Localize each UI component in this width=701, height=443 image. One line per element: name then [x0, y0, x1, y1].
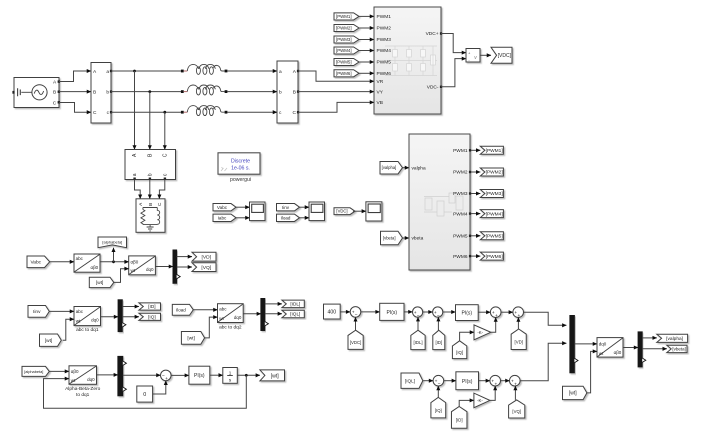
wire abc-to-dq2 to demux2b	[243, 313, 261, 315]
from tag [wt] (row1)	[89, 277, 114, 287]
wire [VDC] to sum1	[355, 317, 357, 330]
wire measurement3 c to load C	[159, 180, 164, 199]
wire from [PWM3] to converter PWM3	[359, 39, 374, 41]
wire wt feedback to Alpha-Beta-Zero wt port	[44, 375, 247, 408]
wire [alphabeta] to Alpha-Beta-Zero block	[50, 370, 70, 372]
wire branch c down to measurement3	[164, 112, 166, 149]
goto tag [ID]	[139, 303, 161, 310]
svg-text:Discrete: Discrete	[231, 158, 250, 164]
from tag Iinv (scope feed)	[277, 204, 300, 211]
svg-text:abc: abc	[76, 256, 84, 261]
scope 3 (VDC)	[366, 202, 382, 221]
svg-text:B: B	[293, 89, 296, 95]
goto tag [valpha]	[657, 334, 688, 342]
sum block 4	[490, 307, 501, 319]
node alphabeta branch	[112, 260, 115, 263]
gain block -K- 2	[474, 393, 490, 408]
wire Iabc to scope1	[236, 217, 250, 219]
from tag [VQ] (up)	[509, 400, 525, 418]
three-phase V-I measurement block 2	[277, 61, 299, 123]
svg-text:b: b	[106, 89, 109, 95]
svg-text:[PWM4]: [PWM4]	[486, 211, 503, 217]
wire PI(s) to integrator	[210, 374, 223, 376]
svg-text:[wt]: [wt]	[187, 336, 194, 342]
from tag [IQL]	[401, 373, 423, 388]
from tag [IQ] (up, top row)	[452, 341, 466, 359]
wire Iload to abc-to-dq2	[193, 309, 218, 311]
svg-text:[PWM3]: [PWM3]	[336, 37, 352, 42]
svg-text:[PWM3]: [PWM3]	[486, 191, 503, 197]
svg-text:abc: abc	[219, 306, 227, 311]
svg-text:PI(s): PI(s)	[462, 311, 473, 317]
from tag Vabc	[27, 256, 50, 268]
svg-text:[VDC]: [VDC]	[498, 53, 512, 59]
svg-text:wt: wt	[71, 378, 76, 383]
svg-text:[vbeta]: [vbeta]	[672, 347, 686, 352]
svg-text:[IQL]: [IQL]	[290, 312, 300, 317]
wire VDC+ to voltage measurement	[441, 34, 466, 53]
svg-text:b: b	[279, 89, 282, 95]
wire PWM generator PWM4 to goto	[471, 213, 480, 215]
svg-text:VY: VY	[377, 89, 384, 95]
wire demux2a to goto [IQ]	[122, 316, 139, 318]
svg-text:wt: wt	[131, 268, 136, 273]
svg-text:-K-: -K-	[477, 398, 483, 403]
from tag [PWM2] input	[334, 24, 359, 31]
svg-text:Iload: Iload	[281, 215, 291, 220]
wire constant 0 to PLL sum	[153, 381, 166, 394]
svg-text:[IQL]: [IQL]	[405, 378, 415, 383]
wire demux2b to goto [IQL]	[265, 313, 282, 315]
wire demux2a to goto [ID]	[122, 306, 139, 308]
wire [wt] to abc-to-dq2 wt port	[204, 317, 217, 338]
sum block 9	[510, 375, 521, 387]
transformation block abc to dq2	[218, 304, 244, 331]
wire [VDC] to scope3	[353, 210, 366, 212]
transformation block abc to alpha-beta-zero	[74, 254, 100, 272]
wire source C to measurement1 C	[59, 103, 91, 113]
transformation block abc to dq1	[74, 307, 101, 334]
svg-text:PI(s): PI(s)	[387, 310, 398, 316]
svg-text:VDC+: VDC+	[426, 31, 439, 37]
wire demux4 to goto [valpha]	[642, 337, 657, 339]
from tag [PWM4] input	[334, 47, 359, 54]
svg-text:[ID]: [ID]	[456, 418, 463, 423]
svg-text:wt: wt	[219, 316, 224, 321]
svg-text:B: B	[53, 90, 56, 96]
demux 4	[638, 332, 646, 367]
svg-text:C: C	[163, 153, 169, 157]
from tag [IQ] (up, bottom row)	[431, 397, 446, 418]
demux 3	[118, 356, 127, 395]
wire measurement2 A to converter VR	[298, 71, 374, 81]
svg-text:αβ0: αβ0	[614, 350, 622, 355]
wire sum3 to PI2	[443, 311, 456, 313]
from tag [PWM6] input	[334, 70, 359, 77]
wire gain1 to sum4	[491, 318, 496, 333]
wire PLL sum to PI(s)	[171, 374, 189, 376]
svg-text:[vbeta]: [vbeta]	[383, 236, 396, 241]
wire source A to measurement1 A	[59, 71, 91, 82]
sum block 7	[433, 375, 444, 387]
sum block 8	[490, 375, 501, 387]
wire Vabc to abc-alphabeta block	[50, 261, 74, 263]
from tag [valpha]	[380, 161, 403, 174]
svg-text:[IQ]: [IQ]	[456, 350, 463, 355]
goto tag [VDC]	[491, 47, 512, 63]
wire dq0-alphabeta to demux4	[623, 347, 638, 349]
svg-text:[PWM5]: [PWM5]	[336, 60, 352, 65]
svg-text:a: a	[106, 70, 109, 75]
svg-text:αβ0: αβ0	[90, 265, 98, 270]
from tag [alphabeta]	[22, 366, 49, 376]
svg-text:PWM1: PWM1	[453, 148, 468, 154]
wire from [PWM1] to converter PWM1	[359, 15, 374, 17]
svg-text:[PWM2]: [PWM2]	[336, 26, 352, 31]
svg-text:Iabc: Iabc	[218, 215, 227, 220]
svg-text:[PWM1]: [PWM1]	[336, 14, 352, 19]
wire [ID] to sum3	[437, 317, 439, 330]
wire abc-to-dq1 to demux2a	[101, 316, 119, 318]
scope 1 (Vabc/Iabc)	[250, 202, 266, 221]
svg-text:b: b	[148, 173, 154, 176]
wire measurement3 a to load A	[135, 180, 141, 199]
constant block 0	[137, 386, 153, 402]
svg-text:PWM4: PWM4	[377, 48, 392, 54]
wire branch up to goto [alphabeta]	[113, 248, 115, 262]
svg-text:[PWM2]: [PWM2]	[486, 170, 503, 176]
svg-text:[IQ]: [IQ]	[148, 314, 156, 319]
svg-text:dq0: dq0	[599, 341, 607, 346]
goto tag [IDL]	[282, 300, 304, 308]
svg-text:dq0: dq0	[87, 377, 95, 382]
svg-text:[VQ]: [VQ]	[512, 409, 521, 414]
wire gain2 to sum8	[490, 386, 495, 400]
svg-text:valpha: valpha	[412, 165, 426, 171]
svg-text:a: a	[132, 173, 138, 176]
svg-text:C: C	[293, 110, 297, 116]
svg-text:[PWM6]: [PWM6]	[486, 254, 503, 260]
wire branch a down to measurement3	[134, 71, 136, 150]
goto tag [PWM2]	[480, 168, 503, 176]
wire from [PWM4] to converter PWM4	[359, 50, 374, 52]
from tag [wt] (row2a)	[40, 334, 62, 346]
wire [wt] to abc-to-dq1 wt port	[63, 319, 74, 340]
svg-text:[VD]: [VD]	[202, 254, 212, 260]
wire [VQ] to sum9	[514, 386, 516, 400]
svg-text:VDC-: VDC-	[427, 85, 439, 91]
wire sum2 to sum3	[423, 311, 433, 313]
svg-text:Iload: Iload	[176, 307, 186, 312]
svg-text:abc to dq1: abc to dq1	[76, 327, 99, 333]
svg-text:dq0: dq0	[91, 318, 99, 323]
wire [IDL] to sum2	[417, 317, 419, 330]
svg-text:PWM6: PWM6	[453, 254, 468, 260]
wire phase a bus	[111, 70, 181, 72]
goto tag [alphabeta] (bottom notch)	[98, 237, 127, 248]
wire demux1 to goto [VQ]	[177, 266, 192, 268]
wire [IQ] to sum7	[437, 386, 439, 397]
svg-text:[VDC]: [VDC]	[336, 209, 347, 214]
mux block	[570, 316, 578, 373]
svg-text:PWM5: PWM5	[377, 60, 392, 66]
wire demux1 to goto [VD]	[177, 256, 192, 258]
svg-text:PWM1: PWM1	[377, 14, 392, 20]
wire measurement2 C to converter VB	[298, 102, 374, 112]
from tag [wt] (row2b)	[181, 332, 204, 345]
svg-text:[alphabeta]: [alphabeta]	[24, 369, 43, 374]
svg-text:VB: VB	[377, 100, 383, 106]
svg-text:[VQ]: [VQ]	[201, 265, 211, 271]
wire [VD] to sum5	[517, 318, 519, 330]
wire measurement3 b to load B	[149, 180, 151, 199]
sum block 3	[433, 307, 443, 319]
wire PWM generator PWM6 to goto	[471, 255, 480, 257]
svg-text:[valpha]: [valpha]	[382, 165, 397, 170]
wire from [PWM2] to converter PWM2	[359, 27, 374, 29]
svg-text:-K-: -K-	[477, 330, 483, 335]
wire mux to dq0-alphabeta block	[574, 343, 597, 345]
wire PI2 to sum4	[478, 311, 490, 313]
svg-text:PWM3: PWM3	[377, 37, 392, 43]
wire PWM generator PWM1 to goto	[471, 149, 480, 151]
svg-text:[wt]: [wt]	[271, 373, 280, 379]
transformation block Alpha-Beta-Zero to dq1	[65, 366, 101, 398]
svg-text:powergui: powergui	[230, 177, 251, 183]
wire PWM generator PWM5 to goto	[471, 235, 480, 237]
wire abc-alphabeta to alphabeta-dq0	[100, 261, 129, 263]
from tag [VD] (up)	[511, 329, 526, 350]
wire from [PWM6] to converter PWM6	[359, 72, 374, 74]
goto tag [IQ]	[139, 313, 161, 320]
PI controller block PLL PI(s)	[189, 366, 210, 384]
svg-text:1: 1	[229, 371, 232, 376]
demux 2b	[261, 299, 269, 331]
gain block -K- 1	[474, 325, 491, 340]
demux 2a	[118, 300, 126, 332]
svg-text:Vabc: Vabc	[30, 260, 41, 266]
svg-text:[ID]: [ID]	[435, 340, 442, 345]
svg-text:a: a	[279, 70, 282, 75]
svg-text:[VDC]: [VDC]	[350, 340, 361, 345]
from tag [vbeta]	[381, 231, 403, 245]
wire PWM generator PWM3 to goto	[471, 193, 480, 195]
svg-text:αβ0: αβ0	[71, 369, 79, 374]
wire sum9 to mux input 2	[520, 343, 566, 381]
goto tag [wt]	[260, 370, 285, 381]
wire demux3 q to PLL sum	[123, 374, 161, 376]
sum block 5	[513, 307, 524, 319]
wire demux4 to goto [vbeta]	[642, 348, 667, 350]
svg-text:VR: VR	[377, 79, 384, 85]
svg-text:[valpha]: [valpha]	[666, 336, 683, 342]
svg-text:wt: wt	[76, 319, 81, 324]
wire sum4 to sum5	[501, 311, 513, 313]
constant block 400	[324, 304, 341, 319]
svg-text:Alpha-Beta-Zero: Alpha-Beta-Zero	[65, 386, 101, 392]
converter subsystem block (IGBT bridge)	[374, 7, 442, 114]
svg-text:dq0: dq0	[146, 267, 154, 272]
wire Alpha-Beta-Zero to demux3	[97, 374, 118, 376]
from tag [PWM5] input	[334, 58, 359, 65]
wire branch b down to measurement3	[149, 92, 151, 150]
wire source B to measurement1 B	[59, 91, 91, 93]
from tag [ID] (up, bottom row)	[451, 407, 467, 429]
from tag Iload (scope feed)	[277, 214, 300, 221]
svg-text:PWM4: PWM4	[453, 211, 468, 217]
wire Lb to measurement2 b	[227, 91, 277, 93]
wire Iload to scope2	[299, 217, 309, 219]
svg-text:dq0: dq0	[234, 315, 242, 320]
transformation block alphabeta to dq0	[129, 256, 156, 275]
from tag [IDL] (up)	[411, 330, 425, 349]
PI controller block PI(s) 3	[456, 372, 479, 390]
node phase a branch	[133, 70, 136, 73]
svg-text:αβ0: αβ0	[131, 260, 139, 265]
svg-text:[IQ]: [IQ]	[435, 408, 442, 413]
sum block 1 (Vdc error)	[350, 307, 361, 319]
svg-text:PI(s): PI(s)	[194, 373, 205, 379]
node phase c branch	[163, 111, 166, 114]
from tag [VDC] (up)	[348, 330, 363, 349]
wire PWM generator PWM2 to goto	[471, 171, 480, 173]
wire voltage measurement to goto [VDC]	[480, 54, 491, 56]
wire sum1 to PI1	[361, 311, 380, 313]
svg-text:C: C	[93, 110, 97, 116]
goto tag [PWM6]	[480, 252, 503, 260]
wire integrator to goto [wt]	[237, 374, 260, 376]
svg-text:400: 400	[327, 310, 336, 316]
svg-text:0: 0	[143, 392, 146, 398]
svg-text:[PWM5]: [PWM5]	[486, 234, 503, 240]
wire La to measurement2 a	[227, 70, 277, 72]
wire phase c bus	[111, 111, 181, 113]
integrator block 1/s	[223, 368, 238, 384]
wire [IQL] to sum7	[423, 380, 433, 382]
wire VDC- to voltage measurement	[441, 59, 466, 87]
svg-text:abc to dq2: abc to dq2	[219, 324, 242, 330]
svg-text:PI(s): PI(s)	[462, 379, 473, 385]
wire [IQ] to gain1	[460, 332, 474, 341]
wire [vbeta] to PWM generator vbeta	[402, 237, 409, 239]
goto tag [VD]	[192, 252, 216, 261]
three-phase parallel RLC load block	[136, 199, 165, 233]
goto tag [IQL]	[282, 310, 304, 318]
node phase b branch	[148, 90, 151, 93]
wire [wt] to alphabeta-dq0 wt port	[113, 269, 128, 283]
wire Iinv to scope2	[299, 206, 309, 208]
wire sum7 to PI3	[444, 380, 456, 382]
goto tag [PWM1]	[480, 146, 503, 154]
wire [valpha] to PWM generator valpha	[402, 167, 409, 169]
svg-text:Vabc: Vabc	[217, 205, 228, 210]
PWM generator subsystem block	[409, 134, 471, 270]
inductor Lc	[181, 106, 228, 116]
from tag [VDC] (scope feed)	[334, 208, 355, 215]
svg-text:[PWM1]: [PWM1]	[486, 148, 503, 154]
goto tag [PWM5]	[480, 232, 503, 240]
wire PI3 to sum8	[479, 380, 490, 382]
from tag [PWM1] input	[334, 13, 359, 20]
inductor La	[181, 64, 228, 74]
demux 1	[173, 250, 180, 283]
svg-text:B: B	[148, 203, 153, 206]
svg-text:PWM2: PWM2	[377, 26, 392, 32]
svg-text:C: C	[53, 100, 57, 106]
svg-text:[wt]: [wt]	[45, 338, 52, 344]
svg-text:[alphabeta]: [alphabeta]	[102, 240, 122, 245]
wire alphabeta-dq0 to demux1	[155, 266, 173, 268]
goto tag [vbeta]	[667, 345, 687, 352]
svg-text:vbeta: vbeta	[412, 236, 424, 242]
from tag Iabc (scope feed)	[213, 214, 236, 221]
from tag [PWM3] input	[334, 36, 359, 43]
svg-text:[PWM4]: [PWM4]	[336, 48, 352, 53]
from tag [wt] (control)	[563, 386, 587, 399]
svg-text:[ID]: [ID]	[148, 304, 155, 309]
goto tag [VQ]	[192, 263, 216, 272]
svg-text:[wt]: [wt]	[96, 280, 103, 286]
transformation block dq0 to alphabeta	[597, 338, 623, 358]
from tag [ID] (up)	[433, 330, 445, 349]
svg-text:wt: wt	[599, 351, 604, 356]
svg-text:Iinv: Iinv	[282, 205, 290, 210]
wire sum8 to sum9	[501, 380, 510, 382]
svg-text:PWM5: PWM5	[453, 234, 468, 240]
wire phase b bus	[111, 91, 181, 93]
wire [wt] to dq0-alphabeta wt port	[587, 351, 597, 393]
svg-text:PWM2: PWM2	[453, 170, 468, 176]
svg-text:B: B	[93, 89, 96, 95]
node wt branch	[245, 374, 248, 377]
three-phase V-I measurement block 1	[91, 63, 112, 124]
from tag Iinv	[28, 306, 49, 318]
wire demux2b to goto [IDL]	[265, 303, 282, 305]
wire sum5 to mux input 1	[524, 312, 567, 325]
scope 2 (Iinv/Iload)	[309, 202, 325, 221]
wire from [PWM5] to converter PWM5	[359, 61, 374, 63]
svg-text:PWM6: PWM6	[377, 71, 392, 77]
svg-text:abc: abc	[76, 309, 84, 314]
wire Lc to measurement2 c	[227, 111, 277, 113]
svg-text:[IDL]: [IDL]	[290, 302, 300, 307]
from tag Iload	[172, 304, 193, 315]
voltage measurement block VDC	[466, 49, 480, 63]
svg-text:[IDL]: [IDL]	[413, 340, 422, 345]
inductor Lb	[181, 85, 228, 95]
wire 400 to sum1	[340, 311, 350, 313]
svg-text:PWM3: PWM3	[453, 191, 468, 197]
svg-text:to dq1: to dq1	[76, 392, 90, 398]
PI controller block PI(s) 1	[380, 303, 404, 320]
wire Iinv to abc-to-dq1	[49, 310, 74, 312]
PI controller block PI(s) 2	[456, 305, 479, 321]
sum block 2	[413, 307, 423, 319]
goto tag [PWM4]	[480, 210, 503, 218]
wire Vabc to scope1	[236, 206, 250, 208]
from tag Vabc (scope feed)	[213, 204, 236, 211]
svg-text:Iinv: Iinv	[33, 309, 41, 315]
wire measurement2 B to converter VY	[298, 91, 374, 93]
three-phase source block	[12, 78, 60, 108]
svg-text:1e-06 s.: 1e-06 s.	[231, 165, 250, 171]
svg-text:[wt]: [wt]	[569, 391, 577, 397]
wire [ID] to gain2	[459, 400, 474, 406]
powergui block	[218, 153, 260, 183]
svg-text:[PWM6]: [PWM6]	[336, 71, 352, 76]
sum block PLL	[161, 370, 172, 382]
three-phase V-I measurement block 3 (rotated)	[125, 150, 176, 180]
